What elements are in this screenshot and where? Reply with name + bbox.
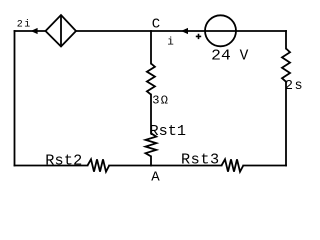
svg-text:Rst2: Rst2 <box>45 151 82 169</box>
svg-text:A: A <box>151 169 160 185</box>
wire: top segment from dependent source through node C and source to top-right corner <box>76 30 286 32</box>
svg-text:2i: 2i <box>17 19 32 31</box>
svg-text:3Ω: 3Ω <box>152 93 169 107</box>
wire: left side vertical <box>14 31 16 166</box>
svg-text:C: C <box>152 17 160 33</box>
wire: right side below impedance 2s <box>285 82 287 166</box>
wire: middle branch between 3-ohm impedance and Rst1 <box>150 95 152 134</box>
impedance 3-ohm zigzag <box>147 64 155 95</box>
plus polarity mark of 24 V source <box>196 34 201 39</box>
svg-text:s: s <box>295 79 303 94</box>
wire: top-left segment from corner to dependent source <box>15 30 46 32</box>
resistor Rst2 zigzag <box>88 159 110 171</box>
dependent current source diamond (CCCS 2i) <box>46 15 77 47</box>
wire: bottom-left segment to Rst2 <box>15 165 88 167</box>
svg-text:Rst3: Rst3 <box>181 150 220 168</box>
wire: right side above impedance 2s <box>285 31 287 49</box>
svg-text:i: i <box>167 36 174 48</box>
resistor Rst3 zigzag <box>222 159 244 171</box>
impedance 2s zigzag <box>282 49 290 82</box>
svg-text:V: V <box>240 48 249 64</box>
svg-text:24: 24 <box>211 48 231 64</box>
wire: bottom middle segment Rst2 to Rst3 through node A <box>109 165 221 167</box>
svg-text:2: 2 <box>285 79 293 94</box>
resistor Rst1 zigzag <box>146 133 157 156</box>
arrowhead: current i pointing left <box>181 28 188 34</box>
dependent source inner arrow line <box>60 15 62 47</box>
voltage source circle 24 V <box>205 15 236 46</box>
wire: middle branch from Rst1 to node A <box>150 156 152 165</box>
arrowhead: controlling current 2i pointing left <box>31 28 38 34</box>
wire: middle branch from node C to 3-ohm impedance <box>150 31 152 64</box>
svg-text:Rst1: Rst1 <box>150 122 186 140</box>
wire: bottom-right segment Rst3 to corner <box>243 165 286 167</box>
